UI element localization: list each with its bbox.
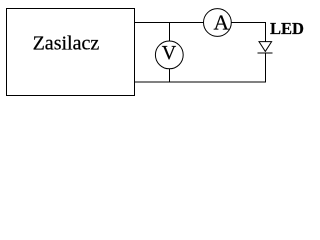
wire: bottom return, box right edge to LED bottom	[135, 81, 267, 83]
LED diode triangle (anode)	[259, 42, 272, 52]
voltmeter V circle	[155, 41, 183, 69]
svg-text:A: A	[214, 11, 230, 35]
svg-text:Zasilacz: Zasilacz	[33, 33, 100, 55]
wire: voltmeter bottom to bottom return wire	[169, 69, 171, 82]
wire: top, box right edge to ammeter left	[135, 22, 204, 24]
node: voltmeter tap junction, wire down to voltmeter top	[169, 23, 171, 42]
power supply box Zasilacz	[7, 9, 135, 96]
ammeter A circle	[204, 9, 232, 37]
LED diode cathode bar	[258, 52, 273, 54]
svg-text:LED: LED	[270, 19, 304, 38]
wire: LED bottom vertical to return wire	[265, 53, 267, 82]
wire: ammeter right to LED top corner	[231, 22, 265, 24]
wire: LED top vertical drop	[265, 22, 267, 42]
svg-text:V: V	[162, 42, 177, 64]
